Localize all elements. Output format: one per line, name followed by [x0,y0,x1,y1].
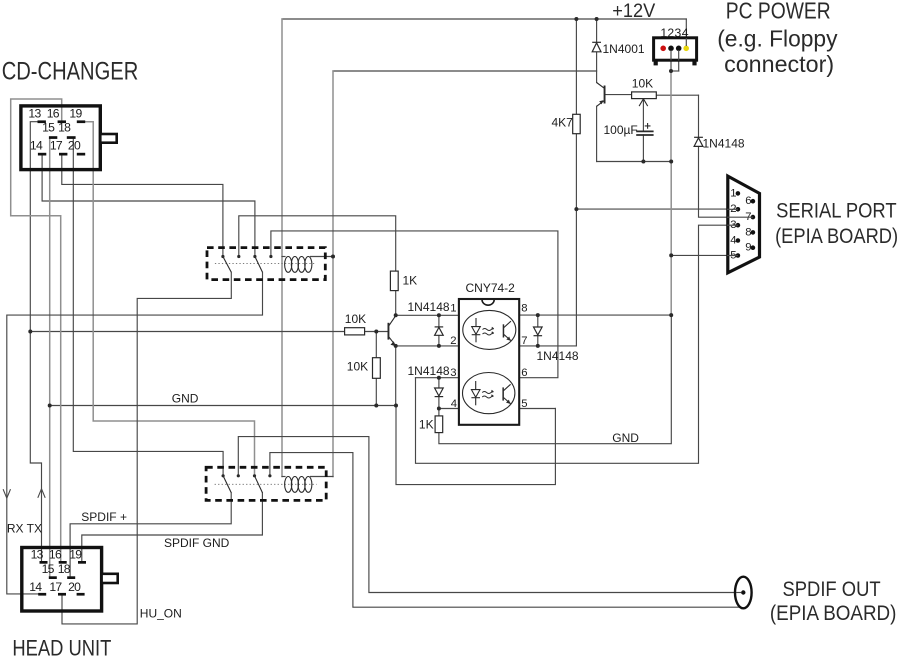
wire relay2 coil left lead [282,476,285,478]
svg-text:17: 17 [49,580,62,594]
wire diode D87 link [537,315,539,346]
node serial pin5 tap [669,253,673,257]
svg-text:+12V: +12V [612,0,655,22]
diode D4 1N4148 (opto pins3-4) [435,388,444,397]
head unit connector body [22,548,102,612]
wire 1N4148 to serial pin7 [699,146,753,217]
relay K1 switch1 blade [223,257,231,273]
resistor R3 1K (opto pin1 feed) [390,271,398,291]
relay K1 dashed box [207,248,325,280]
opto channel B ellipse [463,373,515,414]
serial pin 2 dot [736,207,741,212]
wire 1N4001 branch from rail [596,19,598,42]
diode D3 1N4148 (opto pins1-2) [435,327,444,335]
serial pin 4 dot [736,238,741,243]
wire relay1 common1 HU_ON to HU pin17 [62,272,231,624]
wire pot wiper shaft to cap [642,99,644,132]
wire PC ground down x671 [670,71,672,162]
relay K1 switch2 blade [255,257,263,273]
CD-changer pin 14 mark [38,153,46,156]
resistor R4 10K (base series) [345,328,365,335]
svg-text:15: 15 [42,120,55,134]
wire relay2 contact2 to SPDIF OUT center [238,437,739,593]
TX arrow (up) [38,489,45,498]
CD-changer connector body [21,106,100,170]
node D5 top [536,313,540,317]
serial port DB9 body [728,176,760,273]
svg-text:1N4148: 1N4148 [408,300,450,314]
svg-text:4K7: 4K7 [552,116,574,130]
wire serial pin5 line [671,254,738,256]
wire 4K7 top feed [575,19,577,114]
node opto pin8 ground [669,313,673,317]
node relay K2 contact1 [222,474,225,477]
svg-text:SPDIF OUT: SPDIF OUT [783,577,881,601]
node relay K2 contact3 [253,474,256,477]
svg-text:1: 1 [450,303,456,315]
PC power connector right leg [692,60,696,65]
svg-text:17: 17 [50,138,63,152]
svg-text:19: 19 [69,548,82,562]
svg-text:(EPIA BOARD): (EPIA BOARD) [770,601,897,625]
resistor R1 4K7 [573,114,581,133]
svg-text:18: 18 [58,562,71,576]
wire 1K to Q2 collector node [395,291,397,316]
wire PC power pin4 +12V entry (overlay) [685,38,687,46]
CD-changer pin 13 mark [38,120,46,123]
wire 10K pulldown bottom [375,378,377,405]
svg-text:4: 4 [682,26,689,40]
wire PC power pin3 stub (overlay) [678,50,680,61]
svg-text:20: 20 [68,138,81,152]
wire ground x671 rail to serial pin5 and opto pin8 [670,162,672,316]
diode D1 1N4001 [592,42,601,52]
wire diode D12 link [438,315,440,346]
wire opto pin6 line to relay1 contact [271,231,558,378]
PC power connector left leg [654,60,658,65]
wire relay1 contact2 to 1K resistor line [239,216,396,271]
relay K1 coil [285,257,312,273]
svg-text:SPDIF +: SPDIF + [81,510,127,524]
node D3 top [437,313,441,317]
wire emitter ground rail y161 [597,161,672,163]
svg-text:15: 15 [42,562,55,576]
opto channel B phototransistor [502,384,510,404]
node D5 bottom [536,344,540,348]
node GND rail left [48,404,52,408]
wire PC power pin2 stub (overlay) [670,50,672,61]
node Q2 emitter [394,344,398,348]
wire relay2 coil right lead [311,476,333,478]
head unit pin 14 mark [38,593,46,596]
svg-text:14: 14 [29,580,42,594]
relay K2 coil [285,477,312,493]
relay K2 dashed box [206,467,326,500]
svg-text:GND: GND [172,392,199,406]
wire ground down to pin5 return [396,406,555,485]
wire 10K pulldown top [375,332,377,358]
svg-text:CNY74-2: CNY74-2 [466,281,516,295]
svg-text:SPDIF GND: SPDIF GND [164,536,230,550]
svg-text:SERIAL PORT: SERIAL PORT [776,200,897,223]
wire 4K7 bottom to opto pin7 [575,134,577,346]
node emitter rail corner [669,160,673,164]
wire Q1 emitter down [596,106,598,161]
wire PC pins 2-3 tie bar [671,70,679,72]
resistor R2 10K potentiometer [632,92,657,99]
svg-text:PC POWER: PC POWER [726,0,831,24]
node GND rail right [394,404,398,408]
head unit pin 19 mark [78,561,86,564]
wire PC power pin2 down [670,50,672,71]
opto channel A light arrows [483,327,495,335]
serial pin 5 dot [736,253,741,258]
svg-text:6: 6 [521,367,527,379]
svg-text:connector): connector) [724,51,834,77]
wire coil drive vertical x333 [332,71,334,477]
PC power pin 1 contact (red) [660,46,666,52]
head unit pin 15 mark [49,576,57,579]
node relay K1 contact1 [221,255,224,258]
head unit pin 16 mark [59,561,67,564]
svg-text:10K: 10K [345,312,366,326]
CD-changer pin 17 mark [59,153,67,156]
wire opto pin3 stub [416,377,459,379]
svg-text:18: 18 [58,120,71,134]
head unit pin 13 mark [40,561,48,564]
svg-text:3: 3 [450,367,456,379]
wire Q2 base lead [365,331,388,333]
svg-text:1N4148: 1N4148 [703,136,745,150]
svg-text:100µF: 100µF [604,123,638,137]
node D3 bottom [437,344,441,348]
svg-text:RX TX: RX TX [7,521,42,535]
relay K2 switch1 blade [223,476,231,493]
svg-text:7: 7 [521,335,527,347]
svg-text:6: 6 [745,195,751,207]
svg-text:16: 16 [47,107,60,121]
svg-text:HU_ON: HU_ON [140,607,182,621]
CNY74-2 notch [482,300,494,306]
node base divider [374,330,378,334]
CD-changer pin 15 mark [49,136,57,139]
potentiometer wiper arrow [639,99,648,106]
svg-text:3: 3 [675,26,682,40]
wire cap bottom lead [642,135,644,162]
svg-text:8: 8 [521,303,527,315]
relay K2 linkage dotted line [215,483,317,485]
svg-text:2: 2 [450,335,456,347]
svg-text:13: 13 [31,548,44,562]
node serial pin2 tap [574,207,578,211]
node CD pin13 base tap [28,330,32,334]
serial pin 8 dot [751,230,756,235]
wire relay coil drive rail y71 [333,70,597,72]
wire serial pin2 entry (overlay) [727,208,738,210]
wire CD pin17 to relay1 contact1 [62,155,223,256]
wire opto pin5 stub [519,408,555,410]
svg-text:1K: 1K [419,418,434,432]
wire pot right lead [656,94,698,96]
wire CD pin16 loop to HU pin16 [11,99,62,561]
node D4 top [437,376,441,380]
opto channel A phototransistor [503,321,511,341]
node relay K2 contact2 [237,474,240,477]
svg-text:10K: 10K [347,359,368,373]
wire SPDIF center entry (overlay) [736,592,742,594]
transistor Q2 NPN [388,316,396,346]
PC power pin 4 contact (yellow) [683,46,689,52]
resistor R6 1K (opto pin4) [435,416,443,433]
node cap bottom [641,160,645,164]
wire opto pin7 line [519,345,576,347]
wire opto pin1 line [396,314,459,316]
svg-text:(e.g. Floppy: (e.g. Floppy [717,26,838,52]
wire ground rail y405 [50,405,396,407]
serial pin 9 dot [751,245,756,250]
svg-text:2: 2 [667,26,674,40]
svg-text:1: 1 [660,26,667,40]
svg-text:5: 5 [521,398,527,410]
wire serial pin3 to opto pin3 [416,225,738,463]
capacitor C1 100uF plates [636,131,653,135]
wire CD pin15 to HU pin15 GND [49,139,51,577]
svg-text:13: 13 [28,107,41,121]
svg-text:14: 14 [30,138,43,152]
transistor Q1 PNP [597,83,606,107]
node relay K1 contact2 [237,255,240,258]
relay K1 linkage dotted line [215,263,317,265]
node GND rail R5 [374,404,378,408]
wire 1N4001 to Q1 collector [596,52,598,83]
CD-changer pin 16 mark [58,120,66,123]
opto channel A LED [472,318,481,342]
RX arrow (down) [3,489,10,498]
svg-text:19: 19 [69,107,82,121]
node +12V/1N4001 [595,17,599,21]
node D4 bottom [437,407,441,411]
node relay K1 contact4 [269,255,272,258]
node +12V/4K7 [574,17,578,21]
node relay K1 contact3 [253,255,256,258]
wire diode D34 link [438,378,440,409]
wire +12V drop to PC power pin4 [685,19,687,46]
wire CD pin13 to HU pin13 with TX jog [30,122,41,561]
serial pin 3 dot [736,223,741,228]
serial pin 6 dot [751,199,756,204]
wire 1N4148 top branch from pot line [698,95,700,137]
diode D5 1N4148 (opto pins8-7) [534,327,543,336]
head unit pin 18 mark [67,576,75,579]
svg-text:20: 20 [68,580,81,594]
capacitor C1 plus sign [645,123,651,129]
wire relay2 contact4 to SPDIF OUT shield [270,453,741,608]
opto channel B light arrows [482,390,494,398]
wire 1K2 bottom to GND line [439,315,671,444]
PC power pin 3 contact [676,46,682,52]
head unit pin 17 mark [58,593,66,596]
svg-text:8: 8 [745,226,751,238]
wire opto pin8 line to ground node [519,314,671,316]
wire CD pin14 to relay1 contact3 [42,155,255,256]
svg-text:1: 1 [730,187,736,199]
serial pin 7 dot [751,215,756,220]
wire opto pin2 line [396,345,459,347]
CD-changer pin 18 mark [67,136,76,139]
opto channel A ellipse [463,310,516,349]
serial pin 1 dot [736,191,741,196]
wire relay2 common1 SPDIF+ to HU pin18 [70,493,231,577]
wire 10K base line from CD pin13 [30,331,344,333]
head unit connector tab [102,574,118,583]
svg-text:(EPIA BOARD): (EPIA BOARD) [775,225,898,248]
wire Q2 emitter to ground rail [395,346,397,406]
head unit pin 20 mark [77,593,85,596]
PC power pin 2 contact [668,46,674,52]
svg-text:GND: GND [612,431,639,445]
svg-text:9: 9 [745,242,751,254]
opto channel B LED [471,381,480,405]
PC power connector body [654,38,697,60]
CD-changer pin 19 mark [77,120,85,123]
svg-text:CD-CHANGER: CD-CHANGER [2,58,139,86]
wire relay1 common2 RX to HU pin14 [7,272,263,594]
SPDIF OUT RCA center pin [741,590,745,594]
CD-changer pin 20 mark [77,153,85,156]
svg-text:HEAD UNIT: HEAD UNIT [12,636,111,658]
svg-text:1K: 1K [403,274,418,288]
wire 1K2 top lead [438,409,440,416]
op-amp U1 CNY74-2 optocoupler body [459,299,519,425]
wire CD pin19 to relay2 contact3 [85,122,255,476]
svg-text:16: 16 [49,548,62,562]
wire Q1 base lead [605,94,632,96]
SPDIF OUT RCA jack [735,577,752,609]
wire PC power pin3 down [678,50,680,71]
svg-text:4: 4 [730,234,736,246]
wire serial pin2 line [576,208,738,210]
wire serial pin7 entry (overlay) [727,216,753,218]
wire +12V rail [282,18,686,20]
wire opto pin4 stub [439,408,459,410]
svg-text:1N4148: 1N4148 [537,349,579,363]
svg-text:4: 4 [451,398,457,410]
resistor R5 10K (base pulldown) [373,358,381,379]
CD-changer connector tab [100,134,116,143]
wire CD pin18 to relay2 contact1 [73,139,223,476]
wire +12V vertical feed to relay coils [281,19,283,477]
wire serial pin5 entry (overlay) [727,255,738,257]
wire relay2 common2 SPDIF GND to HU pin19 [82,493,263,561]
node PC pins 2-3 [669,69,673,73]
node relay coil drive [331,255,335,259]
wire relay1 coil right lead [311,256,333,258]
node Q2 collector [394,313,398,317]
wire relay1 coil left lead [282,256,285,258]
svg-text:10K: 10K [632,77,653,91]
opto pin labels [450,303,527,410]
diode D2 1N4148 (serial pin7) [694,137,703,146]
relay K2 switch2 blade [255,476,263,493]
svg-text:1N4148: 1N4148 [408,364,450,378]
wire serial pin3 entry (overlay) [727,224,738,226]
node relay K2 contact4 [268,474,271,477]
svg-text:1N4001: 1N4001 [603,42,645,56]
